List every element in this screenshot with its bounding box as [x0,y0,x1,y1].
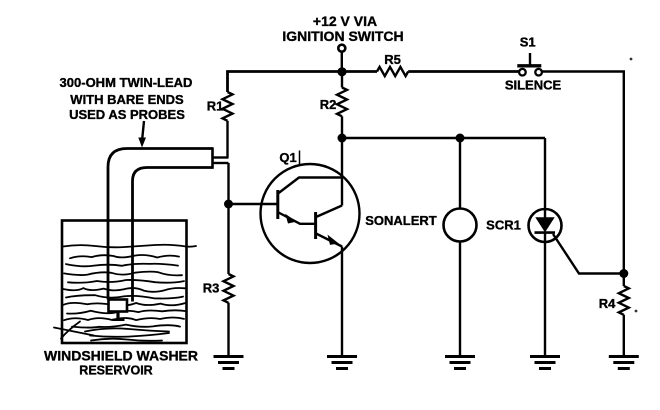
reservoir tank [62,221,187,344]
water wave 9 [64,318,184,321]
resistor R5 [377,67,408,76]
water wave 7 [63,303,185,306]
water wave 8 [67,310,186,313]
svg-text:IGNITION SWITCH: IGNITION SWITCH [282,28,403,44]
wire R4 leads [623,274,625,357]
wire bus to R5 [341,70,377,73]
wire base junction to Q1 [229,203,278,205]
node bus junction dot [337,67,346,76]
mark after Q1 [299,151,301,165]
wire top bus left [228,72,342,93]
probe wires into tank [108,221,133,302]
water wave 6 [66,295,183,298]
ground under R3 [214,357,244,369]
node gate junction dot [619,269,628,278]
node base junction dot [224,200,233,209]
twin-lead cable elbow inner [133,168,213,222]
wire R1 to probe stub [226,121,228,158]
Q1a collector [278,178,342,194]
resistor R2 [337,88,347,117]
twin-lead cable elbow outer [108,149,213,222]
resistor R1 [223,92,233,121]
svg-text:RESERVOIR: RESERVOIR [79,364,152,378]
switch S1 [517,53,542,75]
svg-text:WINDSHIELD WASHER: WINDSHIELD WASHER [44,347,198,363]
Q1a emitter arrowhead [285,214,296,224]
svg-text:+12 V VIA: +12 V VIA [313,13,377,29]
water wave 3 [64,272,182,276]
SCR1 cathode bar [535,231,556,234]
wire probe stub top [213,156,229,158]
svg-text:SILENCE: SILENCE [505,78,562,93]
Q1b emitter arrowhead [328,235,339,245]
svg-text:R3: R3 [203,280,220,295]
arrow label leader [138,121,146,148]
ground under sonalert [445,357,475,369]
water ellipse loop bottom [90,333,169,337]
water ellipse loop top [85,328,169,331]
SCR1 anode triangle [536,218,554,232]
water wave 4 [68,280,184,283]
svg-text:WITH BARE ENDS: WITH BARE ENDS [70,92,184,107]
wire SCR cathode to ground [544,233,546,356]
ground under Q1 [327,357,357,369]
Q1 circle [261,164,360,263]
water wave 1 [70,255,179,258]
water surface line [63,245,196,248]
svg-text:R2: R2 [320,97,337,112]
water wave 10 [72,325,180,328]
water scribble crossing wall [54,322,94,339]
Q1a base bar [276,190,279,219]
wire sonalert to ground [459,242,461,357]
ground under SCR [530,357,560,369]
wire Q1 emitter to ground [341,247,343,357]
transistor Q1 darlington [261,164,360,263]
probe sensor box [109,300,128,312]
wire node line to SCR [342,137,545,139]
wire stub to base junction [227,163,229,204]
svg-text:SONALERT: SONALERT [365,213,437,228]
svg-text:300-OHM TWIN-LEAD: 300-OHM TWIN-LEAD [60,75,193,90]
probe sensor stem [116,312,119,321]
Q1b collector [316,206,342,218]
wire sonalert drop [459,138,461,209]
wire base junction to R3 [227,204,229,274]
speck right middle [635,310,638,313]
wire SCR drop [544,138,546,219]
svg-text:R4: R4 [599,296,616,311]
terminal +12V input [338,45,345,52]
SCR1 body [529,209,562,242]
water bottom wave [91,339,162,341]
resistor R4 [619,286,629,315]
node sonalert tap dot [456,134,465,143]
svg-text:SCR1: SCR1 [486,218,521,233]
Q1b emitter [316,234,342,247]
wire R5 to switch [408,70,519,73]
wire terminal to bus [341,52,343,72]
wire R3 to ground [227,303,229,356]
speck top right [630,58,633,61]
node collector junction dot [338,134,347,143]
water wave 2 [66,264,178,267]
wire bus to R2 [341,72,343,88]
wire collector vertical [341,138,343,206]
svg-text:R1: R1 [207,99,224,114]
water wave 5 [63,288,185,292]
Q1a emitter [279,213,316,224]
wire probe stub bottom [213,162,229,164]
sonalert body [444,209,477,242]
wire R2 to node [341,116,343,138]
svg-text:USED AS PROBES: USED AS PROBES [69,107,185,122]
svg-text:S1: S1 [520,35,536,50]
svg-text:R5: R5 [384,52,401,67]
wire SCR gate [553,234,624,274]
svg-text:Q1: Q1 [279,150,296,165]
wire switch to right rail [542,72,624,274]
Q1b base bar [314,212,317,239]
twin-lead cable end cap [211,147,214,169]
resistor R3 [224,274,234,303]
ground under R4 [609,357,639,369]
